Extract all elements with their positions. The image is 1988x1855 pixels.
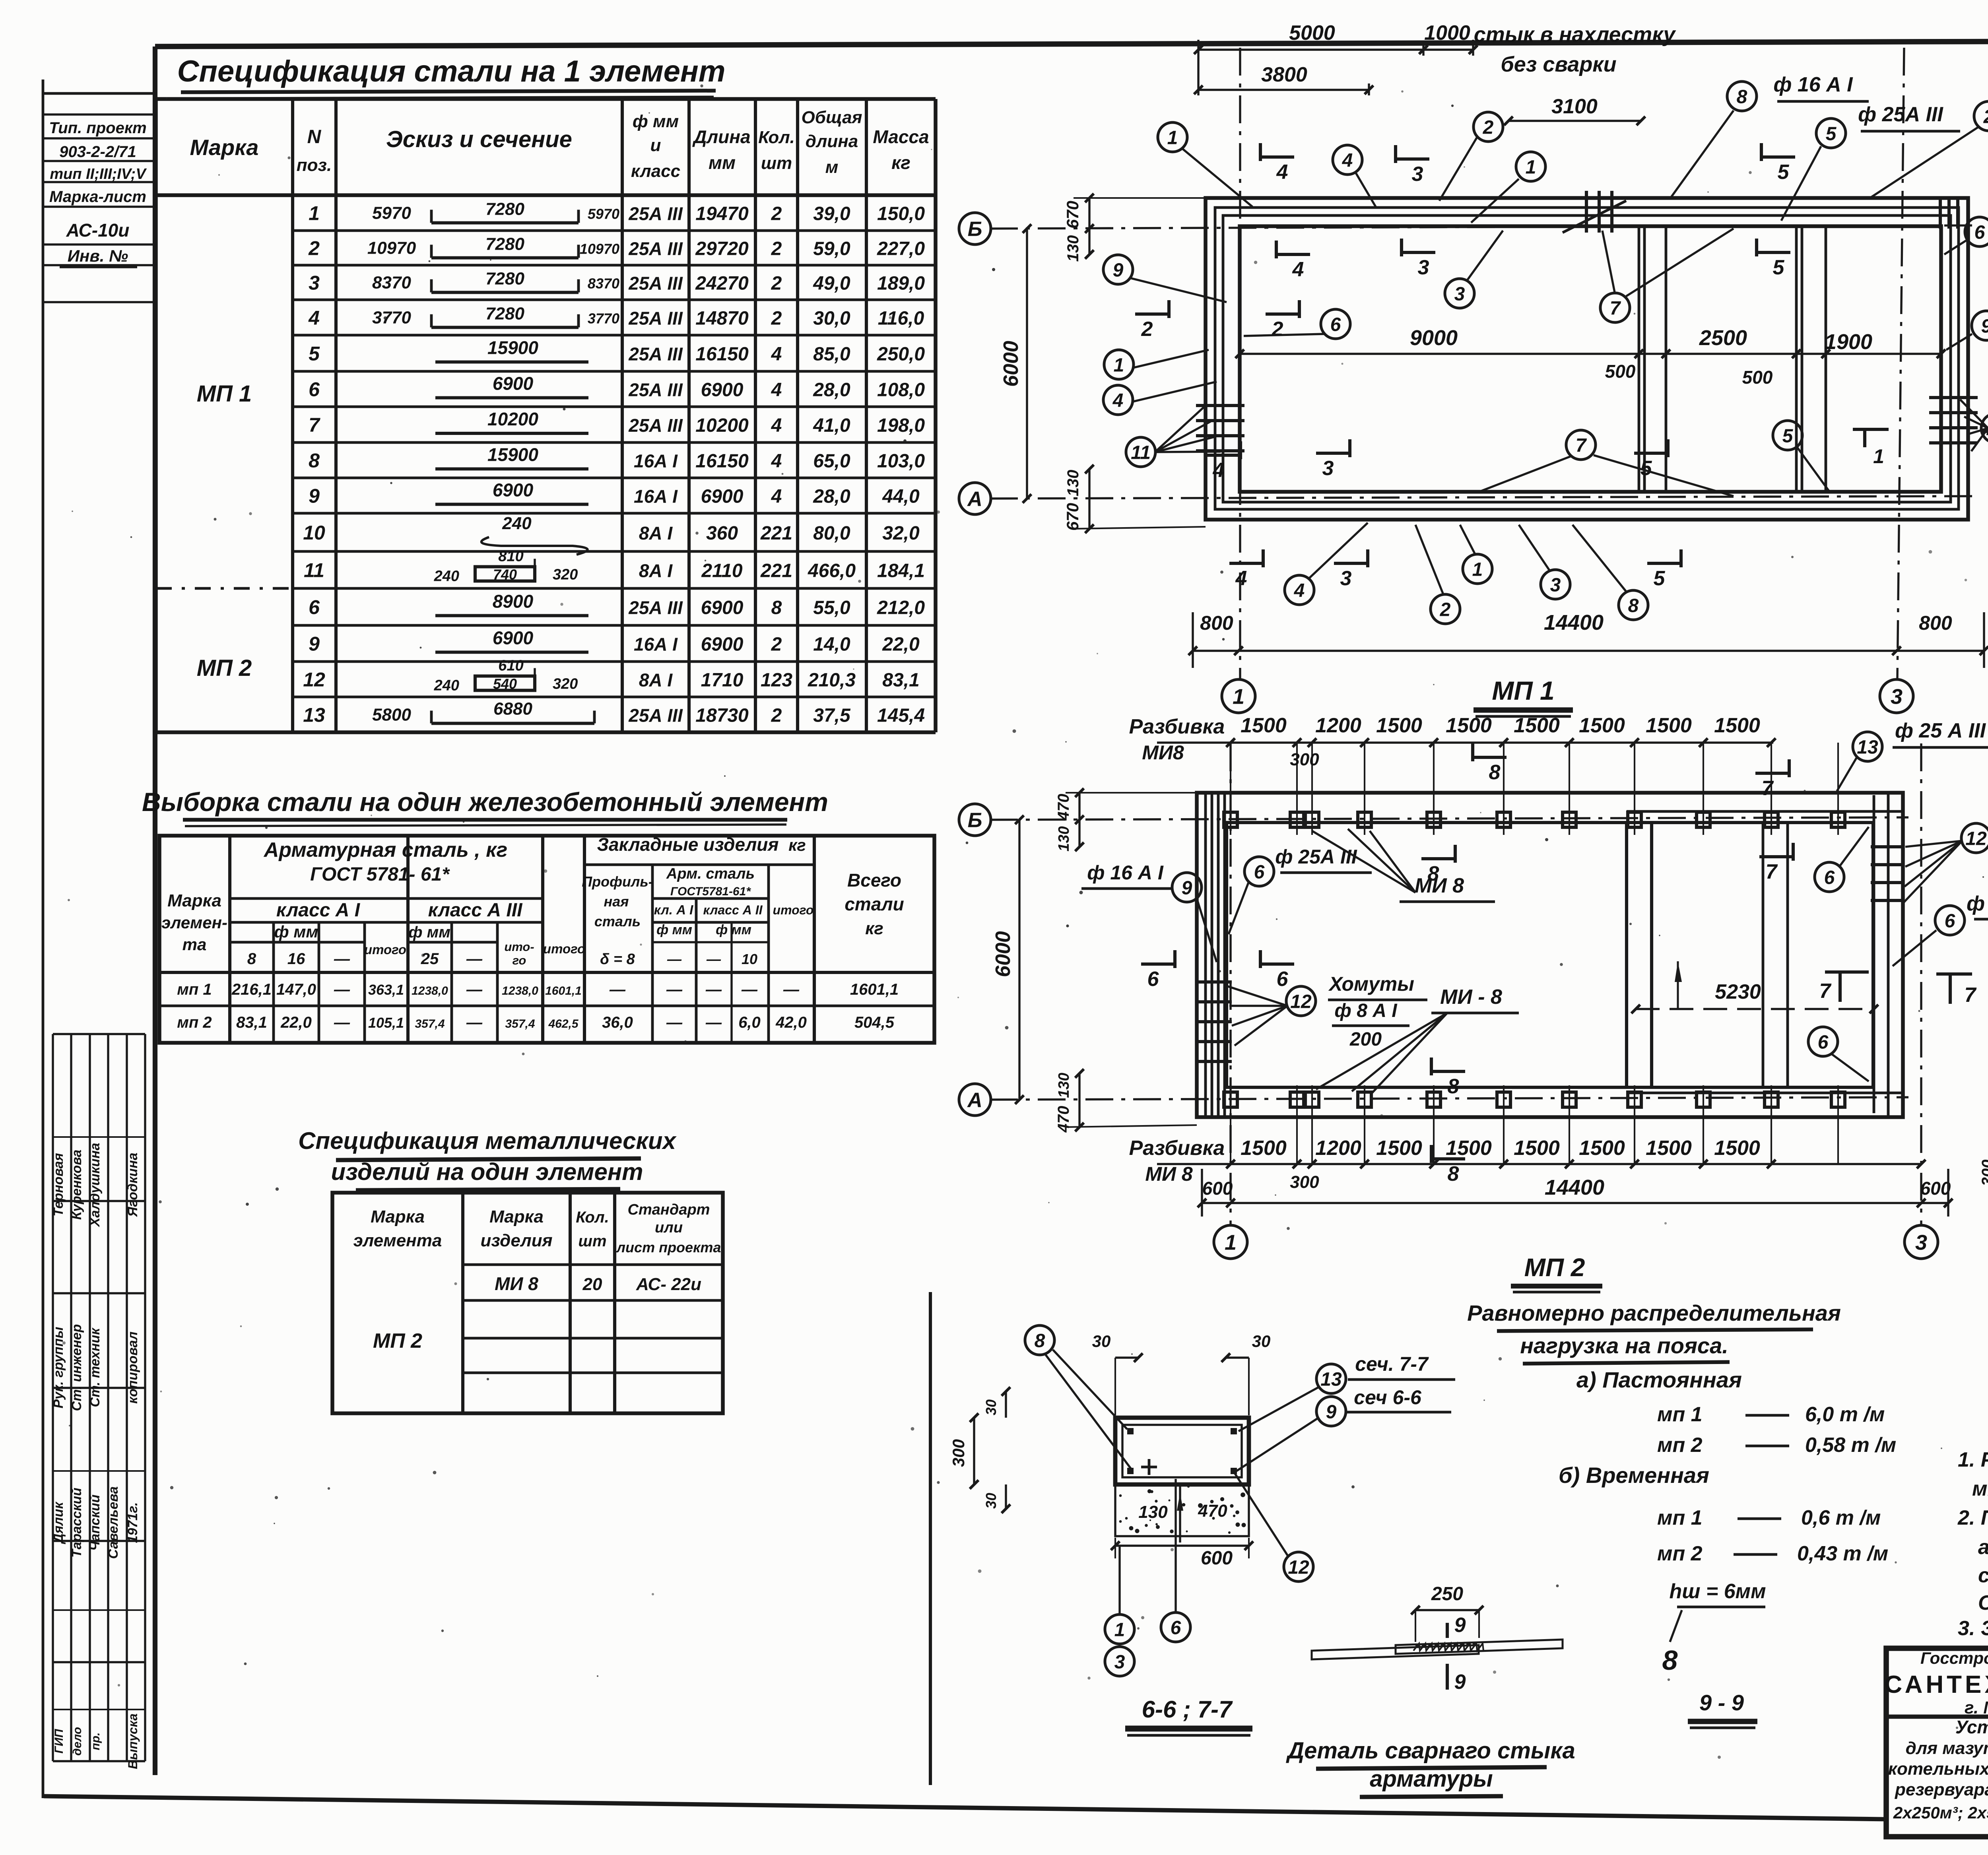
svg-text:6: 6 <box>1171 1617 1181 1638</box>
svg-text:Терновая: Терновая <box>51 1153 66 1216</box>
svg-text:2: 2 <box>771 705 782 726</box>
svg-text:37,5: 37,5 <box>813 705 851 726</box>
svg-text:4: 4 <box>1112 390 1124 411</box>
svg-text:5970: 5970 <box>372 204 411 223</box>
svg-text:копировал: копировал <box>125 1331 140 1404</box>
svg-text:Выпуска: Выпуска <box>126 1713 140 1769</box>
svg-text:212,0: 212,0 <box>877 598 925 619</box>
svg-text:8: 8 <box>1662 1645 1678 1676</box>
svg-text:мп 1: мп 1 <box>1657 1506 1703 1529</box>
svg-text:6900: 6900 <box>493 628 534 648</box>
svg-text:1500: 1500 <box>1241 714 1287 737</box>
svg-text:итого: итого <box>543 941 585 956</box>
svg-text:дело: дело <box>71 1727 84 1756</box>
svg-text:221: 221 <box>760 561 792 582</box>
svg-text:4: 4 <box>771 451 782 472</box>
svg-text:8: 8 <box>1448 1162 1459 1186</box>
svg-text:арматуры: арматуры <box>1370 1766 1493 1792</box>
svg-text:МП 1: МП 1 <box>197 381 252 407</box>
svg-text:нагрузка на пояса.: нагрузка на пояса. <box>1520 1333 1728 1358</box>
svg-text:Деталь сварнаго стыка: Деталь сварнаго стыка <box>1285 1738 1575 1764</box>
svg-text:Марка: Марка <box>371 1207 425 1226</box>
svg-text:8А I: 8А I <box>639 670 673 691</box>
svg-text:1500: 1500 <box>1579 714 1625 737</box>
svg-text:2: 2 <box>771 273 782 294</box>
svg-text:8А I: 8А I <box>639 523 673 543</box>
svg-text:АС-10и: АС-10и <box>66 220 130 241</box>
svg-text:Всего: Всего <box>847 870 901 891</box>
svg-text:Разбивка: Разбивка <box>1129 715 1225 738</box>
svg-text:арматуры выполнять на сварк: арматуры выполнять на сварке (см. деталь… <box>1978 1536 1988 1559</box>
svg-text:ная: ная <box>604 893 629 910</box>
svg-text:5: 5 <box>1654 567 1666 590</box>
svg-text:4: 4 <box>771 344 782 365</box>
svg-text:25А III: 25А III <box>628 705 683 726</box>
svg-text:240: 240 <box>434 568 459 585</box>
svg-text:320: 320 <box>553 567 578 583</box>
svg-text:14870: 14870 <box>695 308 749 329</box>
svg-text:ф 16 А I: ф 16 А I <box>1773 73 1853 96</box>
svg-text:1500: 1500 <box>1446 1137 1492 1160</box>
svg-text:5: 5 <box>1778 161 1790 184</box>
svg-text:Равномерно распределительная: Равномерно распределительная <box>1467 1300 1841 1325</box>
svg-text:5970: 5970 <box>588 206 619 222</box>
svg-text:6: 6 <box>1974 222 1985 243</box>
svg-text:600: 600 <box>1920 1178 1951 1199</box>
title block <box>1886 1648 1988 1837</box>
svg-text:5230: 5230 <box>1715 980 1761 1003</box>
svg-text:6000: 6000 <box>1000 341 1023 387</box>
svg-text:Марка: Марка <box>167 891 221 910</box>
svg-text:13: 13 <box>1320 1369 1342 1390</box>
svg-text:лист проекта: лист проекта <box>616 1239 721 1255</box>
svg-text:Госстрой: Госстрой <box>1920 1649 1988 1667</box>
svg-text:8: 8 <box>247 950 256 968</box>
svg-text:без сварки: без сварки <box>1501 52 1616 76</box>
svg-text:0,43 т /м: 0,43 т /м <box>1797 1542 1888 1565</box>
svg-text:540: 540 <box>493 676 517 692</box>
svg-text:25А III: 25А III <box>628 239 683 259</box>
svg-text:4: 4 <box>1235 567 1247 590</box>
svg-text:Сварку арматуры выполнять э: Сварку арматуры выполнять электродами ти… <box>1978 1591 1988 1614</box>
svg-text:—: — <box>466 981 483 998</box>
svg-text:6900: 6900 <box>493 373 534 394</box>
svg-text:ф мм: ф мм <box>274 922 318 941</box>
svg-text:А: А <box>967 488 982 511</box>
svg-text:Арматурная сталь , кг: Арматурная сталь , кг <box>263 838 507 862</box>
svg-text:изделий на один элемент: изделий на один элемент <box>331 1158 643 1185</box>
svg-text:элемента: элемента <box>353 1231 442 1250</box>
svg-text:4: 4 <box>1292 258 1304 281</box>
svg-text:470: 470 <box>1055 1106 1072 1133</box>
svg-text:300: 300 <box>1979 1160 1988 1186</box>
svg-text:1238,0: 1238,0 <box>412 984 448 997</box>
svg-text:83,1: 83,1 <box>882 670 919 691</box>
svg-text:—: — <box>466 950 483 968</box>
svg-text:2: 2 <box>771 239 782 260</box>
svg-text:1601,1: 1601,1 <box>545 984 582 997</box>
svg-text:227,0: 227,0 <box>877 239 925 260</box>
svg-text:6-6 ; 7-7: 6-6 ; 7-7 <box>1142 1696 1233 1723</box>
section 6-6 7-7 <box>1115 1418 1249 1484</box>
svg-text:САНТЕХПРОЕКТ: САНТЕХПРОЕКТ <box>1884 1671 1988 1698</box>
svg-text:25А III: 25А III <box>628 380 683 400</box>
svg-text:1. Расположение железобетонны: 1. Расположение железобетонных моналитны… <box>1958 1448 1988 1471</box>
svg-text:Закладные изделия: Закладные изделия <box>597 834 779 855</box>
svg-text:470: 470 <box>1198 1501 1227 1521</box>
svg-text:N: N <box>307 126 322 147</box>
svg-text:Тарасский: Тарасский <box>69 1488 84 1558</box>
svg-text:3770: 3770 <box>588 310 619 327</box>
svg-text:500: 500 <box>1605 361 1636 382</box>
svg-text:ф мм: ф мм <box>716 922 751 937</box>
svg-text:130: 130 <box>1064 235 1082 262</box>
svg-text:80,0: 80,0 <box>813 523 850 544</box>
svg-text:1500: 1500 <box>1714 714 1760 737</box>
svg-text:ф мм: ф мм <box>656 922 692 937</box>
svg-text:13: 13 <box>1857 737 1878 758</box>
svg-text:7: 7 <box>1576 435 1587 456</box>
svg-text:210,3: 210,3 <box>808 670 856 691</box>
svg-text:12: 12 <box>1290 991 1312 1012</box>
svg-text:2: 2 <box>308 237 320 260</box>
svg-text:ф 25 А III: ф 25 А III <box>1895 719 1986 742</box>
svg-text:2: 2 <box>771 634 782 655</box>
svg-text:2: 2 <box>771 204 782 225</box>
svg-text:hш = 6мм: hш = 6мм <box>1669 1580 1766 1603</box>
svg-text:9 - 9: 9 - 9 <box>1699 1690 1744 1715</box>
svg-text:1: 1 <box>1225 1230 1237 1254</box>
svg-text:δ = 8: δ = 8 <box>600 951 635 968</box>
svg-text:та: та <box>182 935 207 954</box>
svg-text:28,0: 28,0 <box>813 380 850 401</box>
svg-text:1: 1 <box>1114 1619 1125 1640</box>
svg-text:16: 16 <box>287 950 305 968</box>
svg-text:А: А <box>967 1089 982 1112</box>
svg-text:3: 3 <box>1322 457 1334 480</box>
svg-text:8: 8 <box>309 450 320 472</box>
svg-text:25А III: 25А III <box>628 415 683 436</box>
svg-text:903-2-2/71: 903-2-2/71 <box>59 143 136 161</box>
svg-text:7: 7 <box>1965 984 1977 1007</box>
svg-text:39,0: 39,0 <box>813 204 850 225</box>
svg-text:шт: шт <box>761 153 792 173</box>
svg-text:7280: 7280 <box>485 304 524 324</box>
svg-text:0,6 т /м: 0,6 т /м <box>1801 1506 1881 1529</box>
svg-text:3: 3 <box>1418 256 1429 279</box>
svg-text:184,1: 184,1 <box>877 561 925 582</box>
svg-text:55,0: 55,0 <box>813 598 850 619</box>
svg-text:610: 610 <box>498 658 523 674</box>
svg-text:Кол.: Кол. <box>576 1209 609 1226</box>
svg-text:11: 11 <box>1131 442 1151 463</box>
svg-text:6900: 6900 <box>701 486 744 507</box>
svg-text:класс А III: класс А III <box>428 900 523 921</box>
svg-text:1: 1 <box>1114 355 1124 376</box>
svg-text:шт: шт <box>578 1232 606 1250</box>
svg-text:изделия: изделия <box>480 1231 552 1250</box>
svg-text:1900: 1900 <box>1825 330 1872 354</box>
svg-text:14400: 14400 <box>1545 1176 1604 1199</box>
svg-text:16150: 16150 <box>695 451 749 472</box>
svg-text:Рук. группы: Рук. группы <box>51 1327 66 1408</box>
svg-text:8370: 8370 <box>588 276 619 292</box>
svg-text:357,4: 357,4 <box>415 1017 445 1030</box>
svg-text:1238,0: 1238,0 <box>502 984 538 997</box>
page frame <box>42 80 45 1798</box>
svg-text:—: — <box>706 951 721 967</box>
svg-text:16А I: 16А I <box>634 451 678 472</box>
svg-text:мп 2: мп 2 <box>1657 1542 1703 1565</box>
svg-text:7280: 7280 <box>485 200 524 219</box>
svg-text:22,0: 22,0 <box>280 1014 312 1031</box>
svg-text:2. При отсутствии стержней: 2. При отсутствии стержней необходимой д… <box>1957 1506 1988 1529</box>
svg-text:6,0: 6,0 <box>738 1014 761 1031</box>
svg-text:30: 30 <box>1252 1332 1271 1351</box>
svg-text:300: 300 <box>1290 1172 1319 1192</box>
svg-text:Спецификация металлических: Спецификация металлических <box>298 1127 677 1154</box>
svg-text:для мазутоснабжения: для мазутоснабжения <box>1906 1739 1988 1758</box>
svg-text:1500: 1500 <box>1579 1137 1625 1160</box>
svg-text:Ст. инженер: Ст. инженер <box>69 1324 84 1411</box>
svg-text:—: — <box>666 1014 683 1031</box>
svg-text:41,0: 41,0 <box>813 415 850 436</box>
svg-text:28,0: 28,0 <box>813 486 850 507</box>
svg-text:240: 240 <box>434 677 459 694</box>
svg-text:длина: длина <box>806 132 858 151</box>
svg-text:9: 9 <box>1454 1671 1466 1694</box>
svg-text:130: 130 <box>1138 1502 1168 1522</box>
svg-text:5800: 5800 <box>372 705 411 725</box>
svg-text:итого: итого <box>773 903 814 917</box>
svg-text:—: — <box>667 951 682 967</box>
svg-text:б) Временная: б) Временная <box>1559 1463 1709 1488</box>
svg-text:6: 6 <box>309 596 320 619</box>
svg-text:14400: 14400 <box>1544 611 1604 635</box>
svg-text:4: 4 <box>1294 580 1305 601</box>
svg-text:1500: 1500 <box>1446 714 1492 737</box>
svg-text:3: 3 <box>1915 1230 1927 1254</box>
svg-text:Выборка стали на один железобе: Выборка стали на один железобетонный эле… <box>142 787 828 817</box>
svg-text:105,1: 105,1 <box>368 1015 404 1031</box>
svg-text:18730: 18730 <box>695 705 749 726</box>
svg-text:10200: 10200 <box>695 415 749 436</box>
svg-text:Ягодкина: Ягодкина <box>125 1153 140 1217</box>
svg-text:1200: 1200 <box>1315 714 1361 737</box>
svg-text:800: 800 <box>1919 612 1952 634</box>
svg-text:6: 6 <box>1277 968 1289 991</box>
svg-text:9: 9 <box>1113 260 1124 281</box>
svg-text:1: 1 <box>309 202 320 225</box>
svg-text:30: 30 <box>983 1493 999 1509</box>
svg-text:ГИП: ГИП <box>52 1729 66 1754</box>
svg-text:198,0: 198,0 <box>877 415 925 436</box>
svg-text:8900: 8900 <box>493 591 534 612</box>
svg-text:1000: 1000 <box>1424 21 1470 45</box>
svg-text:10970: 10970 <box>367 239 416 258</box>
svg-text:мп 1 и мп 2 см. листы фу: мп 1 и мп 2 см. листы фундаментов. <box>1972 1477 1988 1500</box>
svg-text:9: 9 <box>1326 1401 1337 1422</box>
svg-text:5: 5 <box>1773 256 1785 279</box>
svg-text:3: 3 <box>1114 1651 1125 1673</box>
svg-text:6: 6 <box>1330 314 1341 335</box>
svg-text:10970: 10970 <box>580 241 619 257</box>
svg-text:3800: 3800 <box>1261 63 1307 86</box>
svg-text:—: — <box>609 981 626 998</box>
svg-text:или: или <box>655 1219 683 1236</box>
svg-text:2: 2 <box>771 308 782 329</box>
svg-text:25: 25 <box>421 950 439 968</box>
svg-text:10: 10 <box>742 951 757 967</box>
svg-text:1500: 1500 <box>1714 1137 1760 1160</box>
svg-text:83,1: 83,1 <box>236 1014 267 1031</box>
svg-text:1500: 1500 <box>1514 714 1560 737</box>
svg-text:363,1: 363,1 <box>368 982 404 998</box>
svg-text:сеч 6-6: сеч 6-6 <box>1354 1386 1422 1409</box>
svg-text:мп 2: мп 2 <box>1657 1434 1703 1457</box>
svg-text:6900: 6900 <box>701 598 744 619</box>
svg-text:кг: кг <box>891 152 911 173</box>
svg-text:кг: кг <box>865 919 883 938</box>
svg-text:5: 5 <box>1826 123 1837 144</box>
svg-text:кл. А I: кл. А I <box>654 902 693 917</box>
svg-text:740: 740 <box>493 567 517 583</box>
svg-text:10: 10 <box>303 522 325 544</box>
svg-text:поз.: поз. <box>297 155 332 175</box>
svg-text:8: 8 <box>771 598 782 619</box>
svg-text:4: 4 <box>1276 161 1288 184</box>
svg-text:1: 1 <box>1233 685 1244 708</box>
svg-text:300: 300 <box>1290 750 1319 769</box>
svg-text:7: 7 <box>1819 980 1832 1003</box>
svg-text:кг: кг <box>788 836 806 854</box>
svg-text:16А I: 16А I <box>634 634 678 655</box>
svg-text:6: 6 <box>1818 1032 1829 1053</box>
svg-text:25А III: 25А III <box>628 308 683 329</box>
svg-text:—: — <box>666 981 683 998</box>
svg-text:6880: 6880 <box>493 699 532 719</box>
svg-text:Масса: Масса <box>873 126 929 147</box>
svg-text:Арм. сталь: Арм. сталь <box>666 865 755 882</box>
svg-text:—: — <box>466 1014 483 1031</box>
svg-text:1500: 1500 <box>1376 714 1422 737</box>
svg-text:МИ8: МИ8 <box>1142 741 1184 764</box>
svg-text:7: 7 <box>309 414 320 436</box>
svg-text:сеч. 7-7: сеч. 7-7 <box>1355 1353 1429 1375</box>
svg-text:АС- 22и: АС- 22и <box>636 1275 701 1294</box>
svg-text:8: 8 <box>1448 1075 1459 1098</box>
svg-text:15900: 15900 <box>487 338 538 358</box>
svg-text:30,0: 30,0 <box>813 308 850 329</box>
svg-text:стык в нахлестку: стык в нахлестку <box>1474 23 1676 47</box>
svg-text:44,0: 44,0 <box>882 486 920 507</box>
svg-text:8: 8 <box>1035 1330 1045 1351</box>
svg-text:9: 9 <box>1454 1614 1466 1637</box>
svg-text:250: 250 <box>1431 1583 1463 1605</box>
svg-text:4: 4 <box>1213 459 1225 482</box>
svg-text:1200: 1200 <box>1315 1137 1361 1160</box>
svg-text:Марка-лист: Марка-лист <box>49 188 146 206</box>
svg-text:6900: 6900 <box>701 380 744 401</box>
svg-text:22,0: 22,0 <box>882 634 920 655</box>
svg-text:8: 8 <box>1489 761 1501 784</box>
svg-text:МП 2: МП 2 <box>197 655 252 681</box>
svg-text:7: 7 <box>1610 298 1621 319</box>
svg-text:600: 600 <box>1201 1548 1233 1569</box>
svg-text:130: 130 <box>1056 1073 1072 1098</box>
svg-text:2: 2 <box>1983 106 1988 127</box>
svg-text:250,0: 250,0 <box>877 344 925 365</box>
svg-text:19470: 19470 <box>695 204 749 225</box>
svg-text:6: 6 <box>1824 867 1835 888</box>
svg-text:м: м <box>825 157 839 177</box>
svg-text:65,0: 65,0 <box>813 451 850 472</box>
svg-text:462,5: 462,5 <box>548 1017 579 1030</box>
svg-text:класс А I: класс А I <box>276 900 361 921</box>
svg-text:7280: 7280 <box>485 235 524 254</box>
svg-text:25А III: 25А III <box>628 344 683 365</box>
svg-text:1500: 1500 <box>1514 1137 1560 1160</box>
svg-text:4: 4 <box>771 380 782 401</box>
svg-text:11: 11 <box>304 559 324 582</box>
svg-text:—: — <box>334 981 350 998</box>
svg-text:9: 9 <box>309 633 320 655</box>
svg-text:Кол.: Кол. <box>758 128 795 147</box>
svg-text:103,0: 103,0 <box>877 451 925 472</box>
svg-text:3770: 3770 <box>372 308 411 328</box>
svg-text:8: 8 <box>1737 86 1747 107</box>
svg-text:Профиль-: Профиль- <box>582 873 653 890</box>
svg-text:резервуарами 2 х 100 м³ ,: резервуарами 2 х 100 м³ , <box>1895 1780 1988 1799</box>
svg-text:9: 9 <box>1981 316 1988 337</box>
svg-text:29720: 29720 <box>695 239 749 260</box>
svg-text:—: — <box>783 981 800 998</box>
svg-text:3. Защитный слой бетона 30: 3. Защитный слой бетона 30 мм. <box>1958 1617 1988 1640</box>
svg-text:360: 360 <box>706 523 738 544</box>
svg-text:357,4: 357,4 <box>505 1017 535 1030</box>
svg-text:240: 240 <box>502 514 532 533</box>
svg-text:элемен-: элемен- <box>161 913 227 932</box>
svg-text:—: — <box>334 1014 350 1031</box>
signature strips left margin <box>52 1034 54 1761</box>
svg-text:9: 9 <box>1182 877 1192 898</box>
svg-text:Марка: Марка <box>190 135 259 160</box>
svg-text:8А I: 8А I <box>639 561 673 581</box>
svg-text:200: 200 <box>1349 1029 1382 1050</box>
svg-text:Тип. проект: Тип. проект <box>49 119 146 137</box>
svg-text:1971г.: 1971г. <box>125 1502 140 1543</box>
svg-text:Хомуты: Хомуты <box>1328 973 1414 995</box>
svg-text:810: 810 <box>498 548 523 565</box>
svg-text:2: 2 <box>1272 318 1283 341</box>
svg-text:Дялик: Дялик <box>51 1501 66 1544</box>
svg-text:6000: 6000 <box>992 931 1015 977</box>
svg-text:Разбивка: Разбивка <box>1129 1137 1225 1160</box>
svg-text:20: 20 <box>582 1275 602 1294</box>
svg-text:МИ 8: МИ 8 <box>1415 874 1464 897</box>
svg-text:5000: 5000 <box>1289 21 1335 45</box>
svg-text:670: 670 <box>1063 503 1082 531</box>
svg-text:150,0: 150,0 <box>877 204 925 225</box>
svg-text:1500: 1500 <box>1376 1137 1422 1160</box>
svg-text:800: 800 <box>1200 612 1233 634</box>
svg-text:ф 8 А I: ф 8 А I <box>1334 1000 1398 1021</box>
svg-text:—: — <box>334 950 350 968</box>
svg-text:25А III: 25А III <box>628 273 683 294</box>
svg-text:1: 1 <box>1167 127 1178 148</box>
svg-text:16150: 16150 <box>695 344 749 365</box>
svg-text:6: 6 <box>1147 968 1159 991</box>
